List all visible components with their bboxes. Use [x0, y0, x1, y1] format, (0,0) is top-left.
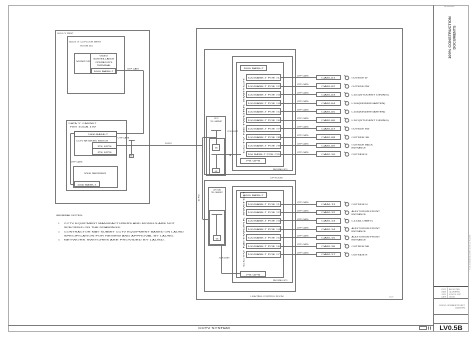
switch port 100 BASE-T POE #5 — [247, 235, 281, 241]
svg-text:#2 F-DIST: #2 F-DIST — [227, 131, 239, 133]
camera symbol — [345, 211, 349, 215]
camera CAM-16 — [317, 244, 341, 249]
svg-text:PS UPS: PS UPS — [98, 152, 114, 154]
CCTV network switch U3 — [237, 63, 284, 167]
switch port 100 BASE-T POE #6 — [247, 118, 281, 123]
camera symbol — [345, 236, 349, 240]
power supply UPS — [93, 149, 117, 155]
wire UTP CAT6 to camera CAM-04 — [281, 103, 317, 105]
svg-text:VSS SERVER: VSS SERVER — [84, 173, 107, 175]
wire UTP CAT6 to camera CAM-17 — [281, 254, 317, 256]
camera CAM-14 — [317, 227, 341, 232]
svg-text:1G F/O: 1G F/O — [165, 143, 173, 145]
camera CAM-05 — [317, 110, 341, 114]
camera symbol — [345, 110, 349, 114]
ground bar TGB-2 — [212, 154, 221, 156]
camera symbol — [345, 153, 349, 157]
svg-text:1G F/O: 1G F/O — [198, 194, 200, 202]
camera symbol — [345, 85, 349, 89]
wire UTP CAT6 to camera CAM-12 — [281, 212, 317, 214]
cabinet inner frame — [210, 139, 225, 175]
camera symbol — [345, 144, 349, 148]
svg-text:LV0.5B: LV0.5B — [440, 325, 463, 332]
wire UTP CAT6 to camera CAM-02 — [281, 86, 317, 88]
wire UTP CAT6 to camera CAM-10 — [281, 154, 317, 156]
wire W3 UTP CAT6 switch to VSS server — [70, 133, 74, 135]
svg-text:#2 F-DIST: #2 F-DIST — [219, 258, 231, 260]
svg-text:DOCUMENTS: DOCUMENTS — [453, 25, 457, 49]
ground bar TGB-3 — [212, 214, 223, 216]
room box LIGHTING CONTROL ROOM — [205, 181, 296, 292]
camera symbol — [345, 228, 349, 232]
svg-text:BLDG 'X' WEST: BLDG 'X' WEST — [57, 33, 74, 35]
wire UTP CAT6 to camera CAM-15 — [281, 237, 317, 239]
ground bus GB — [213, 169, 220, 173]
camera symbol — [345, 136, 349, 140]
CCTV network switch U2 — [75, 132, 117, 156]
switch port 100 BASE-T POE #1 — [247, 202, 281, 207]
camera symbol — [345, 127, 349, 131]
drawing area outer box — [197, 29, 403, 300]
svg-text:OUTSIDE E: OUTSIDE E — [352, 254, 369, 256]
switch port 100 BASE-T POE #7 — [247, 126, 281, 132]
wire fiber to switch — [221, 154, 242, 156]
CCTV network switch U4 — [237, 191, 284, 278]
switch port 100 BASE-T POE #9 — [247, 143, 281, 149]
camera symbol — [345, 253, 349, 257]
VSS operator terminal U1 — [75, 54, 117, 74]
cabinet DP-X — [207, 117, 226, 176]
cabinet LDP-X — [209, 188, 226, 246]
svg-text:OUTSIDE E: OUTSIDE E — [352, 154, 369, 156]
wire W2 1G fiber to riser — [117, 145, 203, 147]
camera CAM-01 — [317, 76, 341, 80]
terminal 1000 BASE-T port — [92, 69, 116, 74]
camera CAM-06 — [317, 118, 341, 123]
svg-text:I-124(LOBBY): I-124(LOBBY) — [352, 221, 374, 223]
camera symbol — [345, 245, 349, 249]
svg-text:OUTSIDE SE: OUTSIDE SE — [352, 137, 371, 139]
camera CAM-12 — [317, 211, 341, 215]
room box BLDG X 1st FLOOR WEST — [68, 37, 125, 94]
wire UTP CAT6 to camera CAM-13 — [281, 220, 317, 222]
switch port 100 BASE-T POE #3 — [247, 92, 281, 98]
switch power supply PS/UPS — [241, 272, 266, 277]
switch port 100 BASE-T POE #3 — [247, 219, 281, 224]
wire W1 UTP CAT6 terminal to switch — [116, 70, 144, 72]
svg-text:1234567890: 1234567890 — [455, 308, 465, 310]
cabinet inner frame — [210, 211, 225, 245]
svg-text:LDP-X(N): LDP-X(N) — [213, 189, 221, 191]
wire UTP CAT6 to camera CAM-03 — [281, 94, 317, 96]
server 1000 BASE-T port — [75, 182, 100, 187]
svg-text:PS UPS: PS UPS — [246, 274, 261, 276]
svg-text:I-101(STUDENT DINING): I-101(STUDENT DINING) — [352, 95, 390, 97]
camera symbol — [345, 219, 349, 223]
svg-text:OUTSIDE SW: OUTSIDE SW — [352, 129, 370, 131]
switch port 100 BASE-T POE #8 — [247, 135, 281, 140]
ground bus GB — [214, 236, 221, 241]
svg-text:DP ROOM: DP ROOM — [271, 178, 283, 180]
wire UTP CAT6 to camera CAM-09 — [281, 145, 317, 147]
svg-text:CCTV NETWORK SWITCH: CCTV NETWORK SWITCH — [244, 189, 246, 267]
ground bus GB at data cabinet — [129, 140, 135, 142]
camera symbol — [345, 119, 349, 123]
svg-text:OUTSIDE NW: OUTSIDE NW — [352, 86, 370, 88]
title block left edge — [433, 5, 435, 331]
title strip bottom — [8, 325, 434, 327]
svg-text:VIDEO: VIDEO — [100, 56, 109, 58]
room box BLDG X WEST — [56, 31, 150, 204]
svg-text:OUTSIDE N: OUTSIDE N — [352, 204, 369, 206]
wire UTP CAT6 to camera CAM-11 — [281, 204, 317, 206]
svg-text:CCTV SYSTEM: CCTV SYSTEM — [198, 326, 230, 330]
wire UTP CAT6 to camera CAM-07 — [281, 128, 317, 130]
svg-text:DP-X: DP-X — [214, 118, 219, 120]
svg-text:PS UPS: PS UPS — [246, 161, 261, 163]
switch port 100 BASE-T POE #10 — [247, 152, 281, 157]
equipment rack box — [233, 187, 293, 283]
server VSS SERVER — [74, 167, 118, 188]
camera CAM-02 — [317, 84, 341, 89]
title block divider lines — [434, 285, 468, 287]
ground bus GB — [213, 145, 220, 151]
camera symbol — [345, 203, 349, 207]
camera CAM-15 — [317, 236, 341, 240]
camera symbol — [345, 102, 349, 106]
svg-text:LIGHTING CONTROL ROOM: LIGHTING CONTROL ROOM — [251, 296, 284, 298]
camera CAM-08 — [317, 135, 341, 140]
equipment rack box — [233, 57, 293, 171]
wire riser stub to DP-X cabinet — [203, 137, 217, 139]
switch port 100 BASE-T POE #1 — [247, 75, 281, 81]
camera CAM-03 — [317, 93, 341, 97]
switch port 100 BASE-T POE #6 — [247, 244, 281, 249]
svg-text:ROOM 110: ROOM 110 — [80, 46, 94, 48]
wire UTP CAT6 to camera CAM-08 — [281, 137, 317, 139]
switch port 100 BASE-T POE #4 — [247, 227, 281, 232]
svg-text:PS UPS: PS UPS — [98, 146, 114, 148]
svg-text:OUTSIDE W: OUTSIDE W — [352, 78, 368, 80]
camera CAM-07 — [317, 127, 341, 131]
switch 1000 BASE-T uplink port — [241, 193, 267, 198]
wire UTP CAT6 to camera CAM-16 — [281, 246, 317, 248]
switch port 100 BASE-T POE #2 — [247, 84, 281, 89]
camera symbol — [345, 76, 349, 80]
ground bar TGB-1 — [211, 130, 221, 132]
svg-text:OUTSIDE NE: OUTSIDE NE — [352, 246, 371, 248]
switch port 100 BASE-T POE #4 — [247, 101, 281, 106]
switch port 100 BASE-T POE #2 — [247, 210, 281, 216]
wire UTP CAT6 to camera CAM-05 — [281, 111, 317, 113]
wire UTP CAT6 to camera CAM-01 — [281, 77, 317, 79]
wire #2 F-DIST to bottom switch — [221, 246, 223, 273]
riser 1G fiber vertical — [202, 138, 204, 219]
switch port 100 BASE-T POE #5 — [247, 109, 281, 115]
power supply PS — [93, 143, 117, 149]
camera CAM-17 — [317, 253, 341, 257]
cabinet DATA X — [67, 121, 127, 191]
switch port 100 BASE-T POE #7 — [247, 252, 281, 258]
camera CAM-11 — [317, 202, 341, 207]
camera CAM-09 — [317, 144, 341, 148]
camera CAM-10 — [317, 152, 341, 157]
wire UTP CAT6 to camera CAM-14 — [281, 229, 317, 231]
svg-text:MONITOR: MONITOR — [76, 61, 90, 63]
svg-text:100% CONSTRUCTION: 100% CONSTRUCTION — [448, 16, 452, 59]
svg-text:I-101(STUDENT DINING): I-101(STUDENT DINING) — [352, 120, 390, 122]
wire UTP CAT6 to camera CAM-06 — [281, 120, 317, 122]
switch power supply PS/UPS — [241, 159, 266, 164]
camera CAM-13 — [317, 219, 341, 224]
switch 1000 BASE-T uplink port — [241, 66, 267, 71]
title strip small box — [420, 327, 427, 330]
room box DP ROOM — [205, 50, 296, 175]
camera symbol — [345, 93, 349, 97]
camera CAM-04 — [317, 101, 341, 106]
svg-text:CCTV NETWORK SWITCH: CCTV NETWORK SWITCH — [244, 76, 246, 154]
